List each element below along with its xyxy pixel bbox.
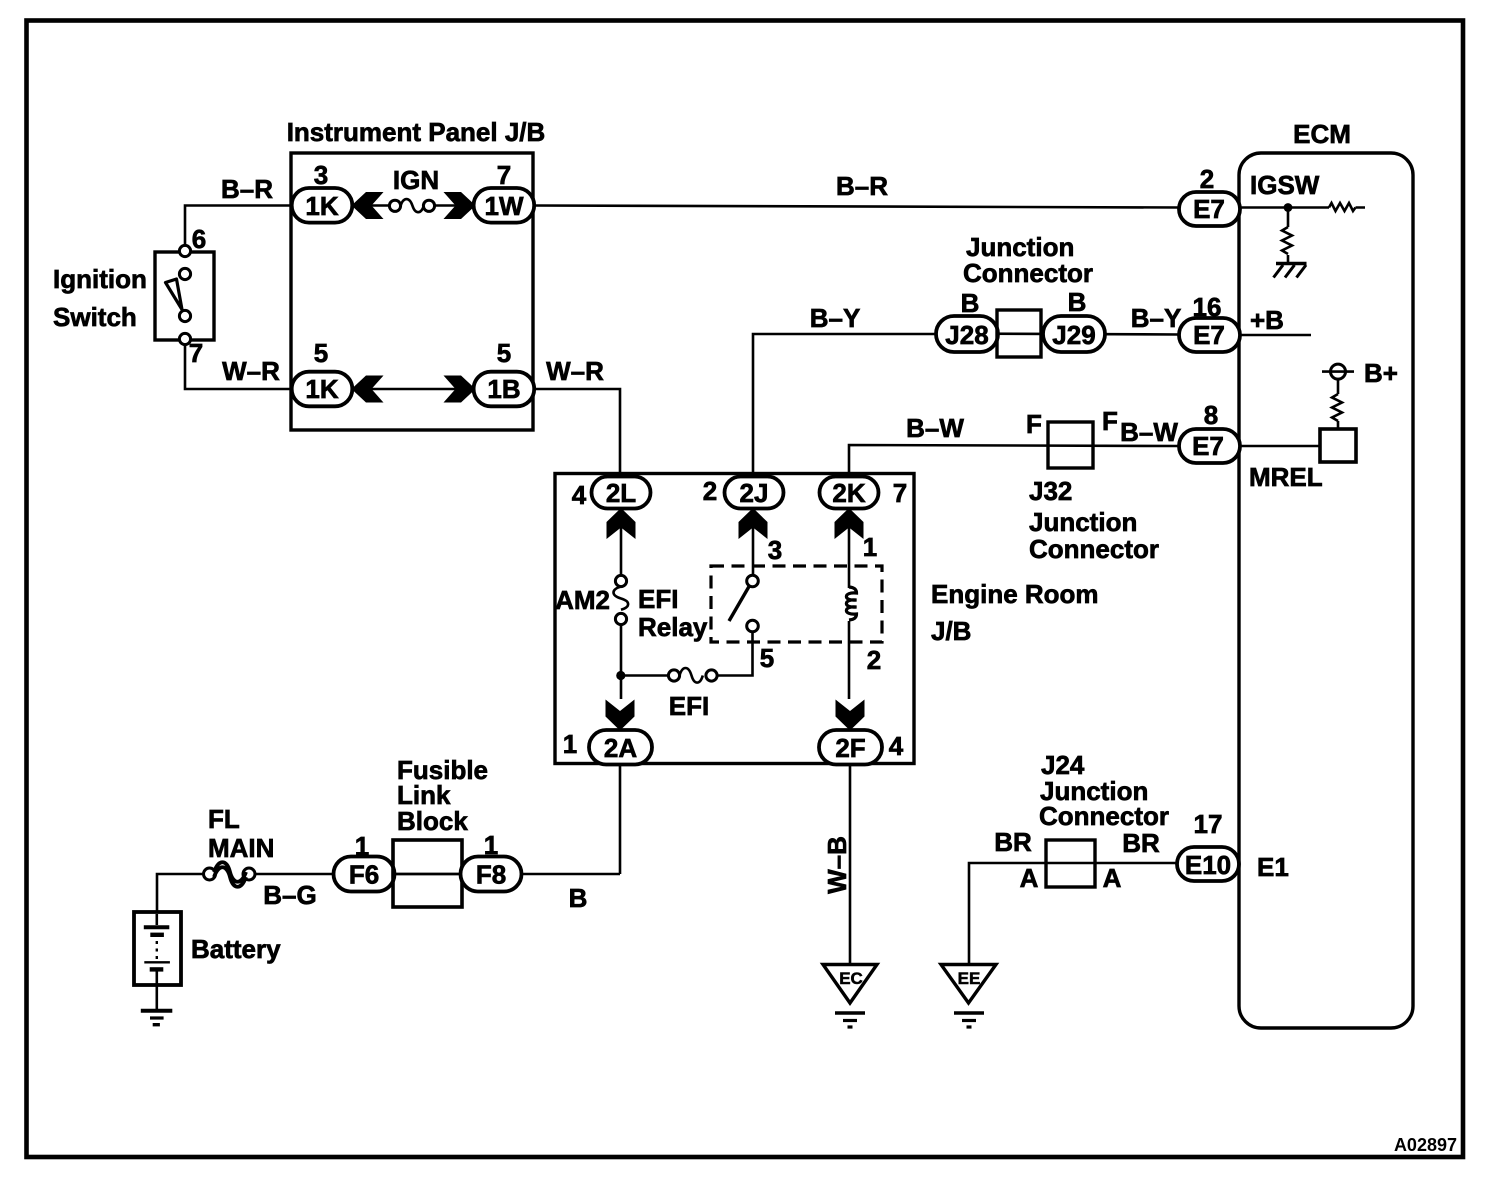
svg-text:1: 1 <box>484 830 498 860</box>
svg-text:+B: +B <box>1250 305 1284 335</box>
svg-text:B–Y: B–Y <box>1131 303 1182 333</box>
svg-text:B–G: B–G <box>263 880 316 910</box>
chevron right top <box>444 192 476 219</box>
svg-text:B: B <box>569 883 588 913</box>
svg-text:4: 4 <box>889 731 904 761</box>
svg-text:MAIN: MAIN <box>208 833 274 863</box>
svg-text:17: 17 <box>1194 809 1223 839</box>
fuse EFI <box>668 668 717 683</box>
svg-text:EFI: EFI <box>638 584 678 614</box>
svg-text:B+: B+ <box>1364 358 1398 388</box>
IGSW internal circuit <box>1239 206 1365 209</box>
svg-text:2F: 2F <box>835 733 865 763</box>
connector 1W <box>474 188 535 223</box>
svg-text:E7: E7 <box>1193 194 1225 224</box>
connector 1K top <box>292 188 353 223</box>
resistor horizontal <box>1329 203 1356 211</box>
svg-text:ECM: ECM <box>1293 119 1351 149</box>
wire B-Y J28 J29 E10 <box>936 334 1180 335</box>
svg-text:1: 1 <box>863 532 877 562</box>
wire 2K up to B-W <box>849 445 1180 477</box>
switch contact circle lower <box>179 310 190 321</box>
svg-text:B–W: B–W <box>906 413 964 443</box>
wire 1K to 1B internal lower <box>353 388 474 391</box>
svg-text:Relay: Relay <box>638 612 708 642</box>
svg-text:2: 2 <box>867 645 881 675</box>
svg-text:F8: F8 <box>476 860 506 890</box>
svg-text:Connector: Connector <box>1029 534 1159 564</box>
svg-text:1: 1 <box>355 831 369 861</box>
ground EC triangle <box>823 965 877 1028</box>
connector E10 <box>1177 847 1239 881</box>
svg-text:A: A <box>1103 863 1122 893</box>
connector J28 <box>936 316 998 352</box>
wire W-R 1B to 2L <box>533 389 620 477</box>
svg-text:1K: 1K <box>305 191 338 221</box>
chevron right lower <box>444 376 476 403</box>
instrument panel J/B box <box>291 153 533 430</box>
svg-text:J/B: J/B <box>931 616 971 646</box>
svg-text:EC: EC <box>839 969 863 988</box>
svg-text:B: B <box>1068 287 1087 317</box>
chevron up 2J <box>739 508 768 539</box>
svg-text:2: 2 <box>703 476 717 506</box>
relay switch arm <box>729 587 749 622</box>
+B stub wire <box>1239 334 1311 337</box>
connector 1B <box>474 372 535 407</box>
connector E7 pin16 <box>1179 318 1240 352</box>
wire 2L chain down <box>620 508 623 699</box>
relay switch bottom contact <box>747 620 759 632</box>
node dot IGSW <box>1284 203 1293 212</box>
svg-text:W–R: W–R <box>546 356 604 386</box>
chevron up 2L <box>607 508 636 539</box>
fusible link FL MAIN <box>204 862 256 887</box>
svg-text:F6: F6 <box>349 860 379 890</box>
svg-text:3: 3 <box>314 160 328 190</box>
svg-text:BR: BR <box>994 827 1032 857</box>
connector F6 <box>334 857 395 892</box>
connector 1K lower <box>292 372 353 407</box>
svg-text:F: F <box>1026 409 1042 439</box>
chevron down 2F <box>836 700 865 731</box>
svg-text:1: 1 <box>563 729 577 759</box>
wire F8 to corner up 2A <box>394 873 620 876</box>
svg-text:A: A <box>1020 863 1039 893</box>
wire 2A down to F8 line <box>619 764 622 874</box>
svg-text:7: 7 <box>497 160 511 190</box>
fuse AM2 <box>614 575 629 624</box>
svg-text:Connector: Connector <box>963 258 1093 288</box>
svg-text:B–W: B–W <box>1120 417 1178 447</box>
resistor vertical B+ <box>1332 379 1342 429</box>
svg-text:5: 5 <box>760 643 774 673</box>
svg-text:1B: 1B <box>487 374 520 404</box>
pin 7 circle <box>179 333 190 344</box>
svg-text:J28: J28 <box>945 320 988 350</box>
chevron left top <box>352 192 384 219</box>
wire 2F down to EC <box>849 764 852 964</box>
svg-text:7: 7 <box>893 478 907 508</box>
junction dot <box>616 671 625 680</box>
ground EE triangle <box>941 965 996 1028</box>
svg-text:EFI: EFI <box>669 691 709 721</box>
connector F8 <box>461 857 522 892</box>
connector 2A <box>589 730 652 765</box>
wire 1K to 1W internal top <box>353 204 474 207</box>
wire MREL <box>1239 445 1320 448</box>
svg-text:2: 2 <box>1200 164 1214 194</box>
wire 2J up to B-Y <box>753 334 936 477</box>
ECM box <box>1239 153 1413 1028</box>
svg-text:2J: 2J <box>740 478 769 508</box>
svg-text:2A: 2A <box>604 733 637 763</box>
svg-text:Engine Room: Engine Room <box>931 579 1099 609</box>
svg-text:Switch: Switch <box>53 302 137 332</box>
wire EFI fuse to dot <box>621 674 668 677</box>
connector 2F <box>819 730 882 765</box>
svg-text:Block: Block <box>397 806 468 836</box>
J28/J29 junction box <box>997 310 1041 357</box>
connector 2J <box>725 477 784 509</box>
B+ node <box>1322 358 1398 388</box>
svg-text:Battery: Battery <box>191 934 281 964</box>
engine room J/B box <box>555 474 914 764</box>
svg-text:Connector: Connector <box>1039 801 1169 831</box>
fusible link block box <box>393 840 462 907</box>
svg-text:MREL: MREL <box>1249 462 1323 492</box>
svg-text:5: 5 <box>497 338 511 368</box>
svg-text:1W: 1W <box>485 191 524 221</box>
svg-text:8: 8 <box>1204 400 1218 430</box>
svg-text:7: 7 <box>189 338 203 368</box>
svg-text:B–R: B–R <box>221 174 273 204</box>
wire ignition pin7 to 1K lower <box>185 344 292 389</box>
wire 2J chain down <box>717 508 753 676</box>
svg-text:F: F <box>1102 406 1118 436</box>
svg-text:EE: EE <box>958 969 981 988</box>
svg-text:E10: E10 <box>1185 850 1231 880</box>
svg-text:B–R: B–R <box>836 171 888 201</box>
svg-text:4: 4 <box>572 480 587 510</box>
battery ground <box>156 985 159 1009</box>
chevron left lower <box>352 376 384 403</box>
svg-text:B: B <box>961 288 980 318</box>
EFI relay dashed box <box>711 566 882 642</box>
svg-text:3: 3 <box>768 535 782 565</box>
J32 junction box <box>1048 422 1093 468</box>
svg-text:BR: BR <box>1122 828 1160 858</box>
svg-text:E1: E1 <box>1257 852 1289 882</box>
J24 junction connector box <box>1046 840 1095 887</box>
wire ignition pin6 to 1K <box>185 206 292 247</box>
connector 2L <box>592 477 651 509</box>
svg-text:J29: J29 <box>1052 320 1095 350</box>
wire EE up to J24 <box>969 863 1177 964</box>
MREL driver box <box>1320 429 1356 462</box>
chevron up 2K <box>835 508 864 539</box>
wire B-R long 1W to E7 <box>533 206 1180 208</box>
resistor vertical IGSW <box>1282 211 1292 262</box>
switch blade <box>166 279 183 310</box>
svg-text:2K: 2K <box>832 478 865 508</box>
chevron down 2A <box>606 700 635 731</box>
wire battery to F6 <box>157 874 334 913</box>
svg-text:IGSW: IGSW <box>1250 170 1320 200</box>
relay coil <box>846 587 856 620</box>
svg-text:B–Y: B–Y <box>810 303 861 333</box>
svg-text:IGN: IGN <box>393 165 439 195</box>
svg-text:Instrument Panel J/B: Instrument Panel J/B <box>287 117 546 147</box>
svg-text:W–B: W–B <box>822 836 852 894</box>
connector E7 pin8 <box>1179 429 1240 463</box>
svg-text:Ignition: Ignition <box>53 264 147 294</box>
wire 2K chain down <box>848 508 851 699</box>
svg-text:AM2: AM2 <box>555 585 610 615</box>
svg-text:J32: J32 <box>1029 476 1072 506</box>
svg-text:A02897: A02897 <box>1394 1135 1457 1155</box>
relay switch top contact <box>747 575 759 587</box>
svg-text:FL: FL <box>208 804 240 834</box>
svg-text:E7: E7 <box>1192 431 1224 461</box>
connector 2K <box>820 477 879 509</box>
svg-text:Junction: Junction <box>1029 507 1137 537</box>
connector J29 <box>1043 316 1105 352</box>
pin 6 circle <box>179 245 190 256</box>
svg-text:5: 5 <box>314 338 328 368</box>
svg-text:1K: 1K <box>305 374 338 404</box>
fuse IGN <box>389 199 434 212</box>
svg-text:W–R: W–R <box>222 356 280 386</box>
connector E7 pin2 <box>1179 192 1240 226</box>
svg-text:6: 6 <box>192 224 206 254</box>
svg-text:E7: E7 <box>1193 320 1225 350</box>
battery <box>134 912 181 985</box>
svg-text:2L: 2L <box>606 478 636 508</box>
ground hatch IGSW <box>1276 262 1307 265</box>
ignition switch box <box>155 252 214 340</box>
switch contact circle <box>179 268 190 279</box>
